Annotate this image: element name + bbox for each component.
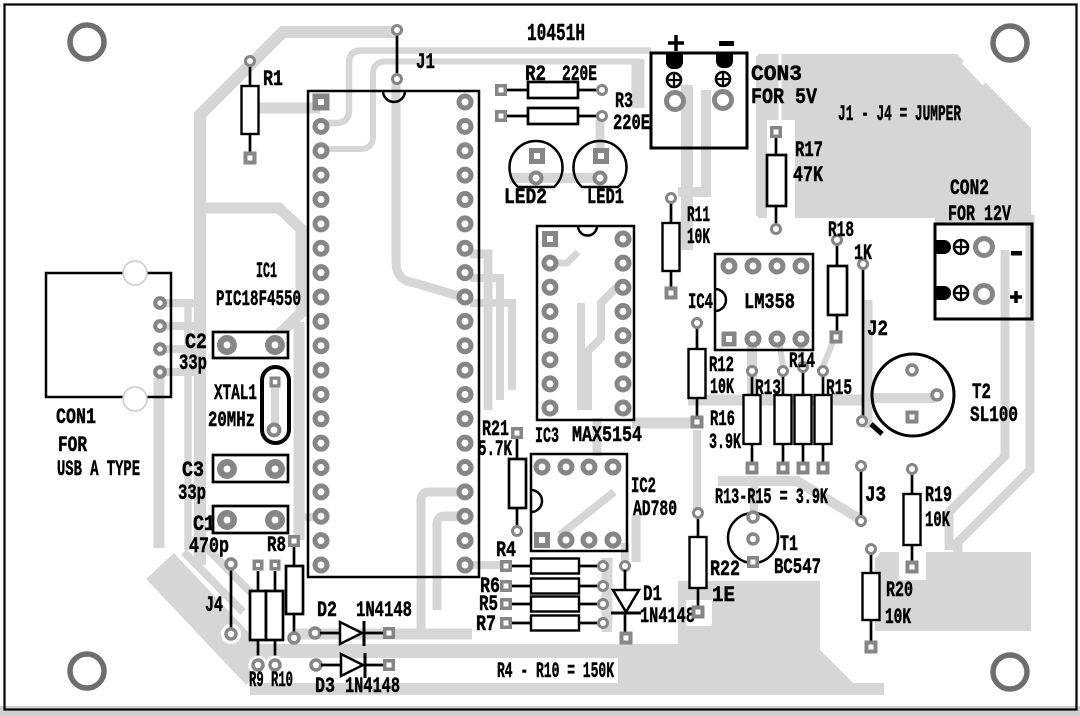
wire: small connectors IC4 bottom to R13/R14/R15 tops <box>823 342 833 366</box>
label R5 <box>479 592 498 617</box>
wire: CON2 internal vertical down to T2 <box>949 250 1005 550</box>
svg-text:R15: R15 <box>826 376 852 401</box>
label C1 <box>193 512 215 537</box>
wire: IC1 interior L-traces bottom right <box>437 516 467 610</box>
label D3 <box>315 674 335 699</box>
svg-text:T1: T1 <box>780 532 798 557</box>
resistor R22 <box>690 509 707 619</box>
svg-text:FOR: FOR <box>58 433 88 458</box>
wire: vertical between caps and IC1 <box>294 322 305 540</box>
svg-text:J3: J3 <box>865 483 886 508</box>
svg-text:R14: R14 <box>789 349 815 374</box>
label J4 <box>205 593 223 618</box>
wire: vertical behind R4-R7 right pads <box>602 558 613 632</box>
label 33p (C3) <box>178 481 206 506</box>
label 1K <box>854 241 873 266</box>
wire: tE: branch from x203 vertical to C2 left pad <box>204 208 301 336</box>
resistor R8 <box>286 535 303 643</box>
label + (CON3) <box>668 35 684 51</box>
mounting hole top-right <box>993 26 1027 60</box>
svg-text:1N4148: 1N4148 <box>356 598 412 623</box>
svg-text:IC2: IC2 <box>631 474 656 499</box>
wire: R1 to IC1 pin1 horizontal <box>252 103 320 114</box>
svg-text:5.7K: 5.7K <box>478 437 513 462</box>
resistor R21 <box>509 427 526 536</box>
label R4 <box>496 538 516 563</box>
svg-text:R18: R18 <box>828 218 854 243</box>
wire: tA: top band ending at J1 top pad, diagonal down-left, long vertical at x203 <box>184 300 192 550</box>
wire: stub IC1 pin to R4 square pad <box>470 561 500 569</box>
mounting hole bottom-left <box>70 654 104 688</box>
jumper J4 <box>221 559 241 644</box>
wire: band below R13 bottoms to J3 <box>718 481 858 518</box>
label R7 <box>476 612 496 637</box>
svg-text:10K: 10K <box>710 375 734 400</box>
wire: inside IC3 thin traces <box>588 287 617 410</box>
resistor R4 <box>500 559 608 574</box>
resistor R3 <box>495 108 607 124</box>
wire: tA: top band ending at J1 top pad, diagonal down-left, long vertical at x203 <box>200 32 396 565</box>
label 10K (R12) <box>710 375 734 400</box>
label FOR 5V <box>751 85 818 110</box>
label FOR 12V <box>948 202 1012 227</box>
label 33p (C2) <box>179 351 207 376</box>
svg-text:FOR 5V: FOR 5V <box>751 85 818 110</box>
label R22 <box>710 557 740 582</box>
svg-text:USB A TYPE: USB A TYPE <box>57 457 140 482</box>
label XTAL1 <box>214 381 257 406</box>
label - (CON3) <box>719 41 734 46</box>
svg-text:R1: R1 <box>263 67 283 92</box>
wire: stub rows on right pads of IC1 going left <box>443 513 468 521</box>
svg-text:R16: R16 <box>710 407 735 432</box>
ground plane top-right <box>758 54 1031 242</box>
resistor R11 <box>663 194 680 300</box>
wire: D1 top pad up to IC2 <box>621 543 629 562</box>
label R18 <box>828 218 854 243</box>
voltage reference IC2 <box>531 454 627 551</box>
wire: inside IC2 diagonal <box>560 492 614 535</box>
wire: tB: second band from CON3 left edge, corner down into IC1 to pin 2 <box>326 51 651 124</box>
resistor R20 <box>858 540 883 660</box>
label R14 <box>789 349 815 374</box>
svg-text:R17: R17 <box>795 138 823 163</box>
label R21 <box>482 417 509 442</box>
label 470p <box>189 534 229 559</box>
resistor R14 <box>795 363 812 475</box>
resistor R19 <box>904 465 921 574</box>
label LED1 <box>587 185 624 210</box>
label R9 R10 <box>249 668 293 693</box>
label R13 <box>755 376 781 401</box>
jumper J2 <box>858 260 868 426</box>
label D1 <box>643 582 662 607</box>
svg-text:R13: R13 <box>755 376 781 401</box>
plane under CON2 labels <box>935 175 1031 224</box>
svg-text:IC4: IC4 <box>688 290 713 315</box>
label J1 <box>416 50 435 75</box>
label CON2 <box>950 176 989 201</box>
wire: vertical strip between CON3 and plane <box>756 56 766 216</box>
label R6 <box>480 574 500 599</box>
label R11 <box>687 203 710 228</box>
label R4 - R10 = 150K <box>497 659 614 684</box>
plane bottom-right <box>875 552 1031 631</box>
label MAX5154 <box>572 423 642 448</box>
wire: L traces right of IC1 (to IC3) <box>470 278 500 400</box>
label 20MHz <box>208 408 255 433</box>
resistors R9 R10 <box>249 560 285 675</box>
transistor T1 <box>728 512 778 568</box>
svg-text:1E: 1E <box>712 583 735 608</box>
LED2 <box>510 141 563 187</box>
wire: bottom-left nested diagonals <box>199 540 258 600</box>
label 5.7K <box>478 437 513 462</box>
transistor T2 <box>871 354 954 436</box>
wire: CON3 internal verticals going down to IC4/R11 <box>678 90 706 192</box>
wire: wide bottom-left diagonal plane band <box>160 566 260 672</box>
diode D3 <box>311 653 395 678</box>
label 10K (R19) <box>925 508 951 533</box>
crystal XTAL1 <box>262 367 289 443</box>
wire: inside IC3 thin traces <box>558 252 578 263</box>
label D2 <box>317 598 337 623</box>
jumper J3 <box>857 462 866 526</box>
wire: CON1 pad stubs <box>160 368 204 376</box>
label J1 - J4 = JUMPER <box>838 102 961 127</box>
IC socket IC1 <box>308 91 479 577</box>
svg-text:3.9K: 3.9K <box>709 430 741 455</box>
label J3 <box>865 483 886 508</box>
wire: horizontal band behind R13..R15 bodies to T2 <box>688 395 870 406</box>
svg-text:R22: R22 <box>710 557 740 582</box>
svg-text:R4: R4 <box>496 538 516 563</box>
wire: tC: third band, bends down at x632 before CON3, corner into IC1 to pin 3 <box>632 59 645 108</box>
label CON3 <box>751 62 802 87</box>
resistor R17 <box>767 126 786 234</box>
capacitor C3 <box>213 455 288 482</box>
wire: tC: third band, bends down at x632 before CON3, corner into IC1 to pin 3 <box>326 62 640 150</box>
svg-text:AD780: AD780 <box>633 497 677 522</box>
svg-text:33p: 33p <box>178 481 206 506</box>
svg-text:FOR 12V: FOR 12V <box>948 202 1012 227</box>
label - (CON2) <box>1011 251 1022 256</box>
wire: IC1 interior L-traces bottom right <box>421 492 467 634</box>
label IC4 <box>688 290 713 315</box>
label + (CON2) <box>1010 291 1022 303</box>
wire: R3 right pad down to LED1 anode <box>596 120 605 150</box>
label 1E <box>712 583 735 608</box>
wire: CON3 internal verticals going down to IC4/R11 <box>681 85 693 250</box>
label 220E (R2) <box>562 62 597 87</box>
op-amp IC4 <box>715 254 813 350</box>
wire: CON1 pad stubs <box>160 322 204 330</box>
capacitor C1 <box>213 506 288 533</box>
wire: tA: top band ending at J1 top pad, diagonal down-left, long vertical at x203 <box>154 378 165 548</box>
svg-text:R2: R2 <box>525 62 546 87</box>
svg-text:PIC18F4550: PIC18F4550 <box>216 287 301 312</box>
svg-text:R7: R7 <box>476 612 496 637</box>
wire: right-side vertical band from plane edge with diagonal bend <box>958 215 1030 552</box>
svg-text:10451H: 10451H <box>527 21 585 48</box>
label LED2 <box>504 185 547 210</box>
svg-text:J1 - J4 = JUMPER: J1 - J4 = JUMPER <box>838 102 961 127</box>
wire: R12 bottom horizontal <box>632 418 694 429</box>
svg-text:C3: C3 <box>182 458 204 483</box>
svg-text:LED2: LED2 <box>504 185 547 210</box>
resistor R12 <box>689 319 706 429</box>
wire: inside IC3 thin traces <box>577 303 585 410</box>
label 1N4148 (D3) <box>345 674 400 699</box>
wire: small connectors IC4 bottom to R13/R14/R15 tops <box>798 345 804 366</box>
label R12 <box>709 353 734 378</box>
svg-text:33p: 33p <box>179 351 207 376</box>
wire: J2 column <box>864 300 873 428</box>
svg-text:J1: J1 <box>416 50 435 75</box>
wire: IC3 bottom to IC2 top <box>593 418 602 456</box>
wire: CON1 pad stubs <box>160 299 204 307</box>
label CON1 <box>56 405 96 430</box>
svg-text:10K: 10K <box>925 508 951 533</box>
svg-text:R20: R20 <box>886 578 913 603</box>
capacitor C2 <box>213 332 288 358</box>
svg-text:LM358: LM358 <box>744 290 795 315</box>
wire: IC2 right down to D1 plane <box>632 515 641 562</box>
svg-text:CON1: CON1 <box>56 405 96 430</box>
wire: vertical to R16 top donut <box>747 346 757 396</box>
label R20 <box>886 578 913 603</box>
label LM358 <box>744 290 795 315</box>
svg-text:1K: 1K <box>854 241 873 266</box>
resistor R13 <box>775 367 792 475</box>
svg-text:47K: 47K <box>793 163 824 188</box>
label 3.9K (R16) <box>709 430 741 455</box>
mounting hole top-left <box>70 25 104 59</box>
label 47K <box>793 163 824 188</box>
wire: row behind D2 to R4 pads column <box>296 629 472 640</box>
resistor R7 <box>500 616 608 631</box>
resistor R15 <box>815 367 832 475</box>
wire: bottom band A <box>240 644 812 658</box>
label R1 <box>263 67 283 92</box>
label R3 <box>615 89 633 114</box>
wire: tD: J1 bottom pad trace through IC1 notch down and right to pin 24 <box>396 83 462 297</box>
svg-text:R8: R8 <box>267 533 286 558</box>
label PIC18F4550 <box>216 287 301 312</box>
svg-text:J2: J2 <box>867 317 888 342</box>
label T1 <box>780 532 798 557</box>
wire: band below R13 bottoms to J3 <box>693 430 701 510</box>
label C2 <box>185 330 207 355</box>
svg-text:R19: R19 <box>925 483 952 508</box>
connector CON1 (USB A) <box>46 261 171 411</box>
label J2 <box>867 317 888 342</box>
svg-text:470p: 470p <box>189 534 229 559</box>
plane bottom-centre <box>612 581 860 694</box>
wire: bottom-left nested diagonals <box>184 552 243 612</box>
mounting hole bottom-right <box>993 655 1027 689</box>
LED1 <box>574 141 627 187</box>
diode D2 <box>310 621 395 646</box>
svg-text:T2: T2 <box>972 380 991 405</box>
label 10451H <box>527 21 585 48</box>
label R8 <box>267 533 286 558</box>
label FOR <box>58 433 88 458</box>
wire: stub rows on right pads of IC1 going left <box>443 488 468 496</box>
label R15 <box>826 376 852 401</box>
label R19 <box>925 483 952 508</box>
svg-text:220E: 220E <box>562 62 597 87</box>
svg-text:BC547: BC547 <box>774 555 821 580</box>
svg-text:10K: 10K <box>885 605 912 630</box>
svg-text:XTAL1: XTAL1 <box>214 381 257 406</box>
jumper J1 <box>393 26 402 84</box>
diode D1 <box>611 562 641 645</box>
label IC2 <box>631 474 656 499</box>
page strip below board <box>0 706 1080 716</box>
label R16 <box>710 407 735 432</box>
wire: CON1 pad stubs <box>160 345 204 353</box>
label 1N4148 (D2) <box>356 598 412 623</box>
svg-text:MAX5154: MAX5154 <box>572 423 642 448</box>
resistor R16 <box>744 367 761 475</box>
svg-text:IC3: IC3 <box>535 424 559 449</box>
svg-text:220E: 220E <box>613 111 650 136</box>
svg-text:CON3: CON3 <box>751 62 802 87</box>
svg-text:CON2: CON2 <box>950 176 989 201</box>
label 220E (R3) <box>613 111 650 136</box>
connector CON3 <box>651 53 747 148</box>
resistor R6 <box>500 579 608 594</box>
svg-text:20MHz: 20MHz <box>208 408 255 433</box>
svg-text:10K: 10K <box>687 225 710 250</box>
svg-text:SL100: SL100 <box>970 403 1018 428</box>
svg-text:1N4148: 1N4148 <box>345 674 400 699</box>
label BC547 <box>774 555 821 580</box>
resistor R5 <box>500 597 608 612</box>
wire: T2 internal horizontal from J2 area <box>865 393 935 403</box>
svg-text:R13-R15 = 3.9K: R13-R15 = 3.9K <box>715 485 828 510</box>
svg-text:R4 - R10 = 150K: R4 - R10 = 150K <box>497 659 614 684</box>
label 10K (R20) <box>885 605 912 630</box>
svg-text:J4: J4 <box>205 593 223 618</box>
label IC3 <box>535 424 559 449</box>
connector CON2 <box>935 224 1032 319</box>
resistor R18 <box>828 236 847 344</box>
label T2 <box>972 380 991 405</box>
wire: stub from cap-column band into IC1 left pad <box>302 513 318 521</box>
wire: L traces right of IC1 (to IC3) <box>470 303 512 390</box>
label 1N4148 (D1) <box>640 604 695 629</box>
label R17 <box>795 138 823 163</box>
label 10K <box>687 225 710 250</box>
label C3 <box>182 458 204 483</box>
wire: band behind LED cathode pads <box>509 173 601 183</box>
resistor R2 <box>495 82 607 98</box>
label IC1 <box>256 259 277 284</box>
svg-text:LED1: LED1 <box>587 185 624 210</box>
label USB A TYPE <box>57 457 140 482</box>
resistor R1 <box>242 57 259 165</box>
wire: bottom band B <box>250 683 884 695</box>
wire: band below R13 bottoms to J3 <box>750 483 758 512</box>
label AD780 <box>633 497 677 522</box>
svg-text:1N4148: 1N4148 <box>640 604 695 629</box>
wire: small connectors IC4 bottom to R13/R14/R15 tops <box>780 345 783 368</box>
label R2 <box>525 62 546 87</box>
wire: L traces right of IC1 (to IC3) <box>470 254 488 410</box>
svg-text:D3: D3 <box>315 674 335 699</box>
label R13-R15 = 3.9K <box>715 485 828 510</box>
svg-text:IC1: IC1 <box>256 259 277 284</box>
svg-text:D2: D2 <box>317 598 337 623</box>
DAC IC3 <box>537 226 634 420</box>
svg-text:R9 R10: R9 R10 <box>249 668 293 693</box>
label SL100 <box>970 403 1018 428</box>
